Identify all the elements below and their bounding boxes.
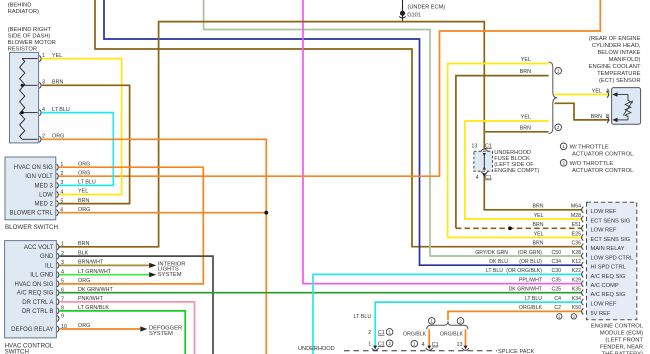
svg-text:BRN: BRN [52, 80, 63, 86]
svg-text:1: 1 [562, 144, 565, 149]
svg-text:6: 6 [61, 288, 64, 294]
svg-text:(BEHIND RIGHT: (BEHIND RIGHT [8, 27, 52, 33]
svg-text:DR CTRL B: DR CTRL B [22, 309, 53, 315]
svg-text:BRN: BRN [533, 241, 544, 247]
svg-text:LOW REF: LOW REF [591, 302, 617, 308]
svg-text:LT BLU: LT BLU [525, 296, 542, 302]
svg-text:ORG: ORG [78, 323, 90, 329]
svg-text:HI SPD CTRL: HI SPD CTRL [591, 265, 626, 271]
svg-text:BRN/WHT: BRN/WHT [78, 260, 104, 266]
svg-text:LOW REF: LOW REF [591, 228, 617, 234]
svg-text:1: 1 [368, 342, 371, 348]
svg-text:5: 5 [60, 198, 63, 204]
svg-text:HVAC ON SIG: HVAC ON SIG [14, 282, 53, 288]
svg-text:(OR ORG/BLK): (OR ORG/BLK) [506, 268, 542, 274]
svg-text:2: 2 [368, 330, 371, 336]
svg-text:4: 4 [476, 175, 479, 181]
svg-text:2: 2 [61, 251, 64, 257]
svg-text:LOW SPD CTRL: LOW SPD CTRL [591, 255, 634, 261]
svg-text:BRN: BRN [533, 222, 544, 228]
svg-text:9: 9 [61, 313, 64, 319]
svg-text:UNDERHOOD: UNDERHOOD [298, 346, 335, 352]
svg-text:1: 1 [557, 69, 560, 74]
svg-text:ORG: ORG [78, 170, 90, 176]
svg-text:W/ THROTTLE: W/ THROTTLE [570, 144, 609, 150]
svg-text:(REAR OF ENGINE: (REAR OF ENGINE [589, 36, 641, 42]
svg-text:K12: K12 [572, 259, 581, 265]
svg-text:ORG: ORG [78, 278, 90, 284]
svg-text:SPLICE PACK: SPLICE PACK [498, 349, 535, 354]
svg-text:C34: C34 [551, 259, 561, 265]
svg-text:LOW REF: LOW REF [591, 209, 617, 215]
svg-text:ENGINE CONTROL: ENGINE CONTROL [591, 323, 644, 329]
svg-text:IGN VOLT: IGN VOLT [25, 174, 53, 180]
svg-text:(ECT) SENSOR: (ECT) SENSOR [599, 78, 641, 84]
svg-text:C2: C2 [554, 305, 561, 311]
svg-text:ORG/BLK: ORG/BLK [403, 331, 427, 337]
svg-text:DR CTRL A: DR CTRL A [22, 300, 53, 306]
svg-text:ECT SENS SIG: ECT SENS SIG [591, 218, 631, 224]
svg-text:K29: K29 [572, 278, 581, 284]
svg-text:5V REF: 5V REF [591, 311, 611, 317]
svg-text:TEMPERATURE: TEMPERATURE [597, 71, 641, 77]
svg-text:C25: C25 [551, 287, 561, 293]
svg-text:2: 2 [60, 171, 63, 177]
svg-text:2: 2 [388, 341, 391, 346]
svg-text:SWITCH: SWITCH [5, 349, 29, 354]
svg-text:HVAC ON SIG: HVAC ON SIG [14, 165, 53, 171]
svg-text:BLOWER CTRL: BLOWER CTRL [9, 211, 53, 217]
svg-text:LT BLU: LT BLU [486, 268, 503, 274]
svg-text:LOW: LOW [39, 193, 53, 199]
svg-text:BRN: BRN [520, 125, 531, 131]
svg-text:ILL GND: ILL GND [30, 273, 54, 279]
svg-text:1: 1 [388, 330, 391, 335]
svg-text:ECT SENS SIG: ECT SENS SIG [591, 237, 631, 243]
svg-text:M64: M64 [571, 204, 581, 210]
svg-text:MAIN RELAY: MAIN RELAY [591, 246, 625, 252]
svg-text:K34: K34 [572, 296, 581, 302]
svg-text:ACC VOLT: ACC VOLT [24, 245, 54, 251]
svg-text:1: 1 [61, 242, 64, 248]
svg-text:DEFOG RELAY: DEFOG RELAY [11, 327, 53, 333]
svg-text:A/C REQ SIG: A/C REQ SIG [17, 291, 54, 297]
svg-text:(OR GRN): (OR GRN) [518, 250, 542, 256]
svg-text:RADIATOR): RADIATOR) [8, 9, 39, 15]
svg-text:YEL: YEL [534, 231, 544, 237]
svg-text:A/C COMP: A/C COMP [591, 283, 619, 289]
svg-text:W/O THROTTLE: W/O THROTTLE [570, 161, 614, 167]
svg-text:1: 1 [430, 319, 433, 324]
svg-text:LT BLU: LT BLU [52, 107, 70, 113]
svg-text:ACTUATOR CONTROL: ACTUATOR CONTROL [572, 151, 634, 157]
svg-text:4: 4 [422, 342, 425, 348]
svg-text:MANIFOLD): MANIFOLD) [609, 57, 641, 63]
svg-text:3: 3 [61, 260, 64, 266]
svg-text:4: 4 [60, 189, 63, 195]
svg-text:K35: K35 [572, 287, 581, 293]
svg-text:(BEHIND: (BEHIND [8, 2, 32, 8]
svg-text:K28: K28 [572, 250, 581, 256]
svg-text:ORG: ORG [52, 134, 64, 140]
svg-text:K22: K22 [572, 268, 581, 274]
svg-text:3: 3 [42, 80, 45, 86]
svg-text:BLK: BLK [78, 250, 89, 256]
svg-text:YEL: YEL [52, 53, 62, 59]
svg-text:2: 2 [42, 134, 45, 140]
svg-text:(OR BLU): (OR BLU) [519, 259, 542, 265]
svg-text:4: 4 [42, 107, 45, 113]
svg-text:A/C REQ SIG: A/C REQ SIG [591, 292, 626, 298]
svg-text:E51: E51 [572, 222, 581, 228]
svg-text:3: 3 [60, 180, 63, 186]
svg-text:MODULE (ECM): MODULE (ECM) [600, 330, 643, 336]
svg-text:BRN: BRN [78, 241, 89, 247]
svg-text:BRN: BRN [591, 114, 602, 120]
svg-text:K50: K50 [572, 305, 581, 311]
svg-text:ORG/BLK: ORG/BLK [440, 331, 464, 337]
svg-text:PNK/WHT: PNK/WHT [78, 296, 104, 302]
svg-text:5: 5 [61, 279, 64, 285]
svg-text:ACTUATOR CONTROL: ACTUATOR CONTROL [572, 168, 634, 174]
svg-text:C30: C30 [551, 268, 561, 274]
svg-text:B: B [606, 114, 610, 120]
svg-text:7: 7 [61, 297, 64, 303]
svg-text:C35: C35 [551, 278, 561, 284]
svg-text:2: 2 [459, 319, 462, 324]
svg-text:LT GRN/BLK: LT GRN/BLK [78, 305, 109, 311]
svg-text:A: A [606, 89, 610, 95]
svg-text:E25: E25 [572, 231, 581, 237]
svg-text:C36: C36 [571, 241, 581, 247]
svg-text:ORG: ORG [78, 207, 90, 213]
svg-text:ORG/BLK: ORG/BLK [519, 305, 543, 311]
svg-text:A/C REQ SIG: A/C REQ SIG [591, 274, 626, 280]
svg-text:SYSTEM: SYSTEM [158, 272, 182, 278]
svg-text:1: 1 [42, 53, 45, 59]
svg-text:13: 13 [471, 143, 477, 149]
svg-text:8: 8 [61, 306, 64, 312]
svg-text:YEL: YEL [521, 57, 531, 63]
svg-text:BRN: BRN [533, 204, 544, 210]
svg-text:BRN: BRN [78, 198, 89, 204]
svg-text:(LEFT FRONT: (LEFT FRONT [605, 337, 643, 343]
svg-text:1: 1 [60, 162, 63, 168]
svg-text:BLOWER SWITCH: BLOWER SWITCH [5, 224, 58, 231]
svg-text:C4: C4 [554, 296, 561, 302]
svg-text:MED 2: MED 2 [34, 202, 53, 208]
svg-text:DK GRN/WHT: DK GRN/WHT [509, 287, 543, 293]
svg-text:LT BLU: LT BLU [78, 180, 96, 186]
svg-text:6: 6 [60, 208, 63, 214]
svg-text:ENGINE COMPT): ENGINE COMPT) [494, 168, 539, 174]
svg-text:C50: C50 [551, 250, 561, 256]
svg-text:SYSTEM: SYSTEM [149, 331, 173, 337]
svg-text:YEL: YEL [534, 213, 544, 219]
svg-text:YEL: YEL [521, 115, 531, 121]
svg-text:PPL/WHT: PPL/WHT [519, 278, 543, 284]
svg-text:(UNDER ECM): (UNDER ECM) [408, 4, 446, 10]
svg-text:GRY/DK GRN: GRY/DK GRN [475, 250, 508, 256]
svg-text:GND: GND [40, 254, 54, 260]
svg-text:YEL: YEL [592, 89, 602, 95]
svg-text:BELOW INTAKE: BELOW INTAKE [597, 50, 640, 56]
svg-text:DK BLU: DK BLU [489, 259, 508, 265]
svg-text:CYLINDER HEAD,: CYLINDER HEAD, [592, 43, 641, 49]
svg-text:MED 3: MED 3 [34, 183, 53, 189]
svg-text:M28: M28 [571, 213, 581, 219]
svg-text:SIDE OF DASH): SIDE OF DASH) [8, 33, 51, 39]
svg-text:LT GRN/WHT: LT GRN/WHT [78, 269, 112, 275]
svg-text:YEL: YEL [78, 189, 88, 195]
svg-text:10: 10 [61, 324, 67, 330]
svg-text:ILL: ILL [45, 263, 54, 269]
svg-text:4: 4 [61, 270, 64, 276]
svg-text:DK GRN/WHT: DK GRN/WHT [78, 287, 113, 293]
svg-text:LT BLU: LT BLU [354, 314, 372, 320]
svg-text:G101: G101 [407, 12, 421, 18]
svg-text:RESISTOR: RESISTOR [8, 46, 38, 52]
svg-text:ENGINE COOLANT: ENGINE COOLANT [589, 64, 641, 70]
svg-text:ORG: ORG [78, 161, 90, 167]
svg-text:BRN: BRN [520, 69, 531, 75]
svg-text:1: 1 [413, 341, 416, 346]
svg-text:BLOWER MOTOR: BLOWER MOTOR [8, 40, 56, 46]
svg-text:2: 2 [557, 125, 560, 130]
svg-text:FENDER, NEAR: FENDER, NEAR [600, 344, 643, 350]
svg-text:13: 13 [457, 342, 463, 348]
svg-text:2: 2 [562, 161, 565, 166]
